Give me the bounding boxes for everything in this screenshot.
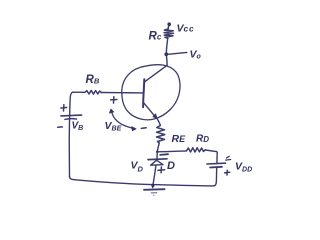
Vcc terminal dot: [167, 22, 171, 26]
transistor Q1 circle: [122, 65, 180, 120]
battery VB plus sign: [61, 105, 67, 111]
battery VB long plate: [61, 114, 82, 117]
resistor Rc: [164, 29, 173, 38]
resistor RE: [157, 126, 165, 144]
wire collector stem: [165, 55, 168, 66]
transistor Q1 base bar: [143, 79, 144, 107]
svg-text:Rc: Rc: [149, 31, 162, 43]
svg-text:VD: VD: [131, 160, 144, 174]
svg-text:RB: RB: [86, 74, 100, 86]
wire Vo lead: [167, 52, 187, 54]
node emitter-diode junction: [156, 151, 159, 154]
svg-text:RD: RD: [196, 134, 209, 145]
svg-text:VB: VB: [72, 121, 84, 133]
VBE curved arrow: [112, 111, 135, 129]
wire Vcc dot to Rc top: [167, 26, 170, 29]
wire base from left corner: [73, 91, 85, 93]
svg-text:D: D: [167, 160, 175, 172]
wire RE to node: [157, 143, 159, 152]
diode minus sign: [160, 153, 168, 156]
transistor Q1 collector diagonal: [145, 65, 168, 82]
diode plus sign: [158, 167, 165, 173]
node ground junction: [151, 184, 154, 187]
diode D triangle: [151, 160, 163, 165]
wire left vertical: [69, 92, 73, 177]
resistor RD: [187, 148, 206, 152]
wire diode stem from node: [156, 152, 158, 159]
svg-text:VBE: VBE: [105, 120, 122, 133]
svg-text:RE: RE: [172, 133, 187, 145]
wire RD to right corner down to battery: [205, 150, 217, 163]
battery VDD plus sign: [225, 170, 230, 175]
ground bar 1: [144, 188, 165, 191]
svg-text:Vcc: Vcc: [177, 23, 195, 35]
wire Rc bottom to collector node: [166, 38, 168, 54]
VBE arrowhead upper: [109, 109, 114, 113]
plus sign at base input: [111, 97, 117, 103]
wire diode anode to ground junction: [153, 165, 156, 187]
svg-text:Vo: Vo: [190, 49, 202, 61]
wire node to RD: [158, 150, 187, 153]
ground dot: [153, 195, 154, 196]
wire VDD bottom to bottom rail: [213, 167, 216, 186]
wire emitter to RE: [157, 119, 160, 126]
battery VDD minus sign: [226, 156, 231, 160]
minus sign at emitter: [141, 127, 146, 130]
diode D cathode bar: [148, 158, 167, 161]
node collector junction: [164, 52, 168, 56]
battery VB short plate: [65, 118, 77, 121]
VBE arrowhead lower: [132, 127, 137, 131]
battery VDD long plate: [207, 162, 226, 165]
transistor Q1 emitter diagonal: [144, 103, 155, 117]
battery VDD short plate: [210, 166, 222, 169]
ground bar 2: [151, 192, 157, 194]
wire RB to base: [101, 92, 143, 94]
battery VB minus sign: [58, 126, 63, 128]
svg-text:VDD: VDD: [235, 161, 252, 174]
transistor Q1 emitter arrowhead: [153, 114, 158, 119]
wire bottom rail: [69, 177, 213, 186]
resistor RB: [85, 90, 101, 94]
